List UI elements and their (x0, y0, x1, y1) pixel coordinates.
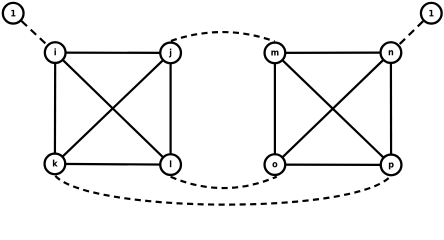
wire edge j-l (170, 53, 172, 165)
wire edge m-o (274, 53, 276, 165)
wire edge n-p (390, 53, 392, 165)
wire edge o-p (275, 164, 391, 166)
label 1 (right) (429, 10, 433, 17)
wire dashed edge 1-i (22, 21, 56, 53)
label j (169, 49, 171, 58)
wire dashed curve l-o (171, 177, 277, 188)
wire edge m-p (275, 53, 391, 165)
wire edge i-j (55, 51, 170, 54)
wire edge n-o (275, 53, 391, 165)
wire edge i-k (54, 53, 56, 164)
wire dashed curve j-m (171, 32, 275, 41)
node l (160, 154, 181, 175)
label o (272, 162, 277, 167)
label 1 (left) (11, 10, 15, 17)
node j (160, 43, 181, 64)
node p (381, 155, 402, 176)
node n (381, 42, 402, 63)
node 1 (right) (421, 3, 442, 24)
label k (53, 160, 58, 167)
label p (389, 162, 394, 169)
node o (265, 154, 286, 175)
node i (45, 42, 66, 63)
node m (265, 43, 286, 64)
label m (271, 50, 278, 55)
node k (45, 154, 66, 175)
label i (54, 48, 55, 55)
label n (389, 50, 393, 55)
wire edge m-n (275, 51, 391, 54)
wire dashed edge 1-n (391, 21, 423, 52)
wire edge j-k (55, 53, 171, 164)
wire edge i-l (55, 53, 170, 165)
wire dashed curve k-p (55, 176, 389, 205)
wire edge k-l (55, 163, 171, 166)
label l (170, 160, 171, 167)
node 1 (left) (3, 3, 24, 24)
